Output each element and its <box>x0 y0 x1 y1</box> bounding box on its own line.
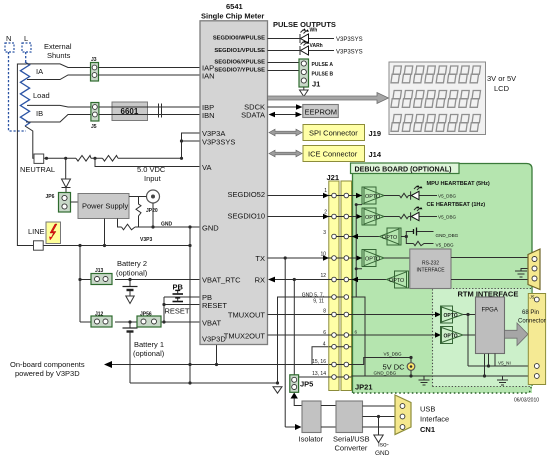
wire GND pins row <box>278 297 347 383</box>
svg-text:IAN: IAN <box>202 72 215 81</box>
junction dot line2-x190 <box>188 381 191 384</box>
wire TMUXOUT row8 <box>268 314 437 316</box>
svg-text:6: 6 <box>355 330 358 335</box>
connector JP56 <box>137 312 161 328</box>
svg-text:LINE: LINE <box>28 227 45 236</box>
svg-text:FPGA: FPGA <box>482 308 498 314</box>
svg-text:V3P3: V3P3 <box>140 237 152 243</box>
LCD digits row3 <box>391 115 481 132</box>
junction dot row3 <box>405 235 408 238</box>
svg-text:INTERFACE: INTERFACE <box>416 268 445 274</box>
LED Wh <box>300 28 317 44</box>
svg-text:Input: Input <box>144 174 162 183</box>
display LCD <box>268 62 546 457</box>
wire row4 through <box>329 346 352 348</box>
svg-text:Interface: Interface <box>420 415 449 424</box>
wire IA sense bottom <box>27 75 91 80</box>
svg-text:RESET: RESET <box>202 301 227 310</box>
svg-text:1: 1 <box>324 188 327 194</box>
wire shunt bottom to line rail <box>17 64 33 246</box>
wire fpga gnd pin <box>484 354 486 376</box>
switch RESET <box>164 298 200 305</box>
svg-text:VARh: VARh <box>310 43 323 49</box>
wire JP6 to PS <box>71 201 79 203</box>
junction dot rail-x190 <box>188 244 191 247</box>
wire TX drop <box>284 258 286 427</box>
svg-text:Battery 2: Battery 2 <box>117 259 147 268</box>
svg-text:SEGDIO7/YPULSE: SEGDIO7/YPULSE <box>214 68 265 74</box>
wire V3P3 rail <box>43 245 190 247</box>
connector J21 strip A <box>329 181 339 391</box>
ground Iso-GND <box>374 435 383 443</box>
wire row3 <box>334 236 380 238</box>
wire JP5 to isolator <box>294 399 302 406</box>
junction dot 5v <box>409 356 412 359</box>
svg-text:4: 4 <box>323 342 326 348</box>
isolator U11 <box>299 401 324 444</box>
wire RS232 to DB9 <box>451 258 528 280</box>
opto U3 row1 <box>356 187 384 204</box>
connector ICE J14 <box>303 146 382 162</box>
svg-text:13, 14: 13, 14 <box>312 371 326 377</box>
svg-text:TX: TX <box>255 254 265 263</box>
wire RX drop <box>293 280 295 375</box>
wire LCD bus arrow <box>268 93 389 104</box>
wire jack to gnd <box>410 370 412 376</box>
ground symbol rtm <box>497 376 508 385</box>
svg-text:GND: GND <box>202 224 219 233</box>
wire IB sense top <box>27 105 91 107</box>
opto U6 row10 <box>356 250 384 267</box>
svg-text:5.0 VDC: 5.0 VDC <box>137 165 166 174</box>
svg-text:Battery 1: Battery 1 <box>134 340 164 349</box>
debug board background <box>353 164 533 394</box>
opto U7 row12 <box>387 271 409 288</box>
wire line A <box>44 157 182 159</box>
arrow FPGA to 68pin <box>505 323 529 346</box>
wire neutral branch <box>25 126 34 158</box>
connector JP20 <box>146 190 160 214</box>
svg-text:V5_DBG: V5_DBG <box>438 215 457 220</box>
resistor row2 <box>384 214 409 218</box>
svg-text:JP20: JP20 <box>146 208 158 214</box>
junction dot rail-b2 <box>78 278 81 281</box>
svg-text:JP21: JP21 <box>355 383 373 392</box>
svg-text:powered by V3P3D: powered by V3P3D <box>15 369 80 378</box>
resistor row1 <box>384 193 409 197</box>
junction dot sw-vbat <box>162 320 165 323</box>
arrowhead SDATA left <box>269 112 276 118</box>
svg-text:Wh: Wh <box>310 28 318 34</box>
junction dot line1-x190 <box>188 363 191 366</box>
svg-text:3: 3 <box>323 230 326 236</box>
connector JP5 <box>290 375 314 393</box>
connector J13 <box>91 268 112 285</box>
svg-text:(optional): (optional) <box>133 349 165 358</box>
wire isolator to converter <box>321 406 336 428</box>
wire iso-gnd drop <box>378 417 380 436</box>
arrowhead row2 <box>323 214 329 219</box>
opto U5 row3 <box>380 228 402 245</box>
LED VARh <box>300 40 323 55</box>
svg-text:OPTO: OPTO <box>389 278 404 284</box>
wire SEGDIO52 row1 <box>268 195 363 197</box>
svg-text:V5_DBG: V5_DBG <box>436 242 455 247</box>
svg-text:6541: 6541 <box>226 2 243 11</box>
wire neutral dashed <box>9 52 27 131</box>
junction dot V3P3-PS <box>103 244 106 247</box>
junction dot lineA-diode <box>64 157 67 160</box>
svg-text:OPTO: OPTO <box>365 215 380 221</box>
svg-text:IA: IA <box>36 67 43 76</box>
shunt resistor (Load) <box>20 62 29 126</box>
converter U12 <box>333 401 370 453</box>
svg-text:SDATA: SDATA <box>241 111 265 120</box>
svg-text:RESET: RESET <box>165 307 190 316</box>
diode D1 <box>62 158 71 192</box>
battery B1 <box>123 320 138 383</box>
arrowhead row3 into strip <box>352 234 358 239</box>
svg-text:V5_DBG: V5_DBG <box>384 352 403 357</box>
svg-text:PULSE B: PULSE B <box>312 72 334 78</box>
debug board header <box>351 163 460 174</box>
label RTM INTERFACE <box>457 290 521 299</box>
junction dot jack gnd <box>409 374 412 377</box>
svg-text:SEGDIO10: SEGDIO10 <box>227 212 265 221</box>
svg-text:9, 11: 9, 11 <box>313 299 324 305</box>
wire V3P3 drop from PS <box>104 219 106 246</box>
wire YPULSE <box>268 70 300 72</box>
svg-text:Converter: Converter <box>335 444 368 453</box>
svg-text:OPTO: OPTO <box>365 194 380 200</box>
wire line2 <box>130 382 278 384</box>
wire chip bottom drop <box>216 345 218 365</box>
svg-text:J5: J5 <box>91 124 97 130</box>
junction dot iso-gnd <box>377 415 380 418</box>
svg-text:Single Chip Meter: Single Chip Meter <box>201 12 264 21</box>
wire GND_DBG line <box>352 375 537 377</box>
svg-text:IB: IB <box>36 109 43 118</box>
svg-text:OPTO: OPTO <box>365 257 380 263</box>
wire switch common <box>163 297 165 322</box>
vertical net x190 <box>189 227 191 383</box>
svg-text:LCD: LCD <box>494 84 510 93</box>
connector 5V DC jack <box>407 363 415 371</box>
arrowhead SDATA right <box>296 112 303 118</box>
svg-text:Load: Load <box>33 91 50 100</box>
memory EEPROM <box>303 105 339 118</box>
junction dot JP20 gnd <box>151 225 154 228</box>
wire JP20 to GND <box>152 203 154 227</box>
resistor R1 <box>76 156 91 162</box>
resistor R3 on GND <box>122 224 136 230</box>
interface RS-232 <box>410 249 451 289</box>
terminal L <box>22 43 31 52</box>
svg-text:L: L <box>24 34 28 43</box>
svg-text:GND 5, 7,: GND 5, 7, <box>302 292 324 298</box>
connector J5 <box>91 103 99 131</box>
svg-text:68 Pin: 68 Pin <box>522 310 539 316</box>
connector J1 <box>299 59 334 89</box>
svg-text:SEGDIO1/VPULSE: SEGDIO1/VPULSE <box>214 48 265 54</box>
wire row15 through <box>329 364 352 366</box>
wire IBN <box>99 114 200 116</box>
RTM region background <box>433 289 532 387</box>
connector J3 <box>91 57 99 81</box>
arrowhead up into JP5 <box>291 393 298 399</box>
wire VBAT row <box>80 321 200 323</box>
wire row4 bend <box>312 347 329 365</box>
svg-text:V3P3SYS: V3P3SYS <box>202 138 235 147</box>
svg-text:6: 6 <box>323 330 326 336</box>
junction dot sw-reset <box>162 303 165 306</box>
svg-text:VBAT: VBAT <box>202 319 221 328</box>
svg-text:GND: GND <box>161 222 173 228</box>
LED MPU heartbeat <box>409 185 438 200</box>
wire IB sense bottom <box>26 115 91 123</box>
svg-text:06/03/2010: 06/03/2010 <box>514 398 539 404</box>
svg-text:N: N <box>6 34 11 43</box>
hazard box <box>46 222 61 244</box>
junction dot v5ni <box>487 364 490 367</box>
wire SEGDIO10 row2 <box>268 216 363 218</box>
power supply U2 <box>78 194 129 219</box>
opto U4 row2 <box>356 208 384 225</box>
svg-text:15, 16: 15, 16 <box>312 359 326 365</box>
svg-text:SEGDIO52: SEGDIO52 <box>227 190 265 199</box>
wire GND line <box>118 219 201 228</box>
wire IAN <box>99 74 201 76</box>
svg-text:On-board components: On-board components <box>10 360 85 369</box>
svg-text:V5_NI: V5_NI <box>498 360 511 365</box>
wire IA sense top <box>26 64 91 68</box>
junction dot TX <box>284 256 287 259</box>
wire TMUX2OUT row6 <box>268 334 437 336</box>
wire PS to JP20 <box>129 196 147 198</box>
wire VA <box>95 158 200 166</box>
resistor R2 <box>103 156 119 162</box>
fpga U10 <box>476 297 505 354</box>
svg-text:CN1: CN1 <box>420 425 435 434</box>
svg-text:PULSE OUTPUTS: PULSE OUTPUTS <box>273 20 336 29</box>
wire V3P3SYS vertical <box>182 133 201 158</box>
svg-text:J14: J14 <box>369 150 382 159</box>
svg-text:JP5: JP5 <box>300 380 313 389</box>
chip 6601 <box>112 102 148 121</box>
ground symbol dbg <box>419 376 430 385</box>
opto U8 rtm1 <box>435 306 463 323</box>
svg-text:RX: RX <box>255 276 265 285</box>
wire gnd net vertical <box>352 297 366 376</box>
svg-text:SPI Connector: SPI Connector <box>309 129 358 138</box>
arrowhead into isolator <box>295 424 302 430</box>
wire rtm1 to FPGA <box>463 314 476 316</box>
wire SDCK <box>268 106 301 108</box>
svg-text:SEGDIO0/WPULSE: SEGDIO0/WPULSE <box>213 36 265 42</box>
junction dot V3P3SYS <box>180 139 183 142</box>
svg-text:J1: J1 <box>312 80 320 89</box>
wire WPULSE <box>268 38 335 40</box>
wire TX to isolator <box>285 426 297 428</box>
svg-text:CE HEARTBEAT (1Hz): CE HEARTBEAT (1Hz) <box>427 202 486 208</box>
svg-text:GND_DBG: GND_DBG <box>374 371 397 376</box>
svg-text:VA: VA <box>202 163 211 172</box>
wire VPULSE <box>268 50 335 52</box>
svg-text:TMUX2OUT: TMUX2OUT <box>224 332 266 341</box>
svg-text:V3P3SYS: V3P3SYS <box>336 37 363 43</box>
svg-text:PULSE A: PULSE A <box>312 62 334 68</box>
svg-text:OPTO: OPTO <box>444 333 458 339</box>
svg-text:USB: USB <box>420 405 435 414</box>
wire opto to RS232 <box>384 257 410 259</box>
wire rtm2 to FPGA <box>463 334 476 336</box>
wire VBAT_RTC row <box>80 279 200 281</box>
arrowhead TX <box>323 255 329 260</box>
junction dot RX <box>293 278 296 281</box>
wire fpga v5 pin <box>489 354 496 367</box>
junction dot line1-chip <box>215 363 218 366</box>
battery B2 <box>123 278 138 304</box>
svg-text:Isolator: Isolator <box>299 435 324 444</box>
svg-text:8: 8 <box>323 309 326 315</box>
terminal NEUTRAL <box>34 154 44 163</box>
svg-text:J5: J5 <box>529 295 535 300</box>
svg-text:(optional): (optional) <box>116 269 148 278</box>
svg-text:TMUXOUT: TMUXOUT <box>228 311 265 320</box>
junction break ticks <box>159 104 162 118</box>
svg-text:10: 10 <box>320 252 326 258</box>
junction dot rail-v3p3 <box>78 244 81 247</box>
wire V5_NI <box>468 365 537 367</box>
svg-text:VBAT_RTC: VBAT_RTC <box>202 276 241 285</box>
arrowhead RX <box>268 277 275 283</box>
wire row3 out <box>401 236 406 238</box>
arrowhead V3P3D left <box>104 361 112 368</box>
switch PB <box>164 290 200 297</box>
connector J12 <box>91 312 112 328</box>
wire SDATA <box>274 114 296 116</box>
wire opto ground rail <box>356 205 362 297</box>
wire TX row10 <box>268 257 363 259</box>
svg-text:External: External <box>44 42 72 51</box>
arrowhead row12 into strip <box>352 277 358 282</box>
junction dot lineA-x97 <box>93 157 96 160</box>
wire V3P3D line1 <box>106 364 329 366</box>
wire line live <box>25 52 27 62</box>
svg-text:RS-232: RS-232 <box>422 261 439 267</box>
wire RX row12 <box>269 279 386 281</box>
svg-text:J19: J19 <box>369 129 382 138</box>
svg-text:OPTO: OPTO <box>382 235 397 241</box>
svg-text:DEBUG BOARD (OPTIONAL): DEBUG BOARD (OPTIONAL) <box>355 166 453 174</box>
resistor R4 vertical <box>136 197 141 228</box>
junction dot GND-vert <box>188 225 191 228</box>
LCD digits row2 <box>391 91 481 108</box>
svg-text:ICE Connector: ICE Connector <box>308 150 358 159</box>
opto U9 rtm2 <box>435 327 463 344</box>
ground arrow below J1 <box>300 87 309 97</box>
junction dot gnd-line2 <box>276 381 279 384</box>
wire row13 stub <box>298 376 351 378</box>
svg-text:JP6: JP6 <box>46 194 55 200</box>
wire IBP <box>99 106 200 108</box>
op-chip U1 6541 <box>200 2 268 345</box>
svg-text:OPTO: OPTO <box>444 313 458 319</box>
svg-text:Serial/USB: Serial/USB <box>333 435 370 444</box>
svg-text:Power Supply: Power Supply <box>82 202 129 211</box>
svg-text:SEGDIO6/XPULSE: SEGDIO6/XPULSE <box>214 60 265 66</box>
RTM dashed border <box>433 289 532 387</box>
contact GND_DBG branch <box>406 228 433 237</box>
svg-text:Connector: Connector <box>518 319 546 325</box>
junction dot fpga gnd <box>483 374 486 377</box>
svg-text:3V or 5V: 3V or 5V <box>487 74 516 83</box>
svg-text:NEUTRAL: NEUTRAL <box>20 165 55 174</box>
LED CE heartbeat <box>409 206 438 221</box>
resistor V5_DBG branch <box>406 237 433 246</box>
wire IAP <box>99 67 201 69</box>
debug board border <box>353 164 533 394</box>
power arrow V3P3D down <box>273 387 282 394</box>
svg-text:GND_DBG: GND_DBG <box>436 233 459 238</box>
ground DB9 <box>515 269 528 278</box>
svg-text:EEPROM: EEPROM <box>305 108 338 117</box>
arrowhead SDCK <box>296 104 303 110</box>
connector J21 strip B <box>341 181 352 391</box>
connector DB9 <box>528 249 540 290</box>
connector SPI J19 <box>303 125 381 141</box>
rail battery left <box>79 246 81 323</box>
svg-text:MPU HEARTBEAT (5Hz): MPU HEARTBEAT (5Hz) <box>427 181 490 187</box>
terminal LINE <box>34 241 44 250</box>
arrowhead row1 <box>323 193 329 198</box>
connector JP6 <box>46 193 71 213</box>
svg-text:Shunts: Shunts <box>47 51 71 60</box>
connector USB CN1 <box>395 395 411 435</box>
svg-text:GND: GND <box>375 450 390 457</box>
connector 68pin J5 <box>528 294 545 385</box>
svg-text:J21: J21 <box>327 173 340 182</box>
wire V5_DBG feed <box>352 358 412 365</box>
arrow ICE double <box>269 150 302 157</box>
wire converter to USB <box>363 406 396 427</box>
svg-text:12: 12 <box>320 273 326 279</box>
svg-text:V5_DBG: V5_DBG <box>438 194 457 199</box>
terminal N <box>5 43 14 52</box>
svg-text:V3P3SYS: V3P3SYS <box>336 50 363 56</box>
pin circles J21 <box>332 193 349 379</box>
svg-text:V3P3D: V3P3D <box>202 335 226 344</box>
arrow SPI double <box>269 129 302 136</box>
wire XPULSE <box>268 62 300 64</box>
svg-text:IBN: IBN <box>202 111 215 120</box>
debug board dotted bottom <box>353 387 531 393</box>
svg-text:Iso-: Iso- <box>378 442 389 449</box>
LCD digits row1 <box>391 66 481 83</box>
svg-text:2: 2 <box>324 210 327 216</box>
